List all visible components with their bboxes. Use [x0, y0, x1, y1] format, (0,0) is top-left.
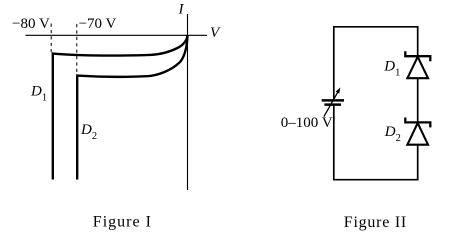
- curve D2 (breakdown at -70 V): [77, 35, 187, 179]
- I axis (vertical): [187, 14, 189, 190]
- zener diode D2: [405, 118, 430, 145]
- svg-text:D1: D1: [383, 58, 400, 78]
- svg-text:I: I: [178, 2, 185, 18]
- dashed line at -70 V: [76, 24, 78, 75]
- dashed line at -80 V: [50, 24, 52, 54]
- wire: left side upper (to source): [333, 26, 335, 99]
- wire: top side of loop: [333, 26, 419, 28]
- svg-text:−80 V: −80 V: [12, 16, 50, 32]
- variability arrow through source: [324, 87, 341, 116]
- svg-text:D2: D2: [80, 122, 97, 142]
- wire: left side lower (from source): [333, 106, 335, 181]
- svg-text:−70 V: −70 V: [79, 16, 117, 32]
- svg-text:Figure II: Figure II: [344, 214, 407, 231]
- V axis (horizontal): [26, 34, 208, 36]
- wire: right side middle (D1 to D2): [417, 78, 419, 122]
- curve D1 (breakdown at -80 V): [53, 35, 188, 179]
- svg-text:0–100 V: 0–100 V: [281, 115, 333, 131]
- wire: right side lower (D2 to bottom): [417, 145, 419, 181]
- wire: right side upper (top to D1): [417, 26, 419, 56]
- zener diode D1: [405, 51, 430, 78]
- battery long plate: [322, 99, 344, 102]
- wire: bottom side of loop: [333, 179, 419, 181]
- battery short plate: [324, 103, 341, 106]
- svg-text:D2: D2: [384, 124, 401, 144]
- svg-text:V: V: [210, 25, 221, 41]
- svg-text:D1: D1: [30, 84, 47, 104]
- svg-text:Figure I: Figure I: [93, 214, 152, 231]
